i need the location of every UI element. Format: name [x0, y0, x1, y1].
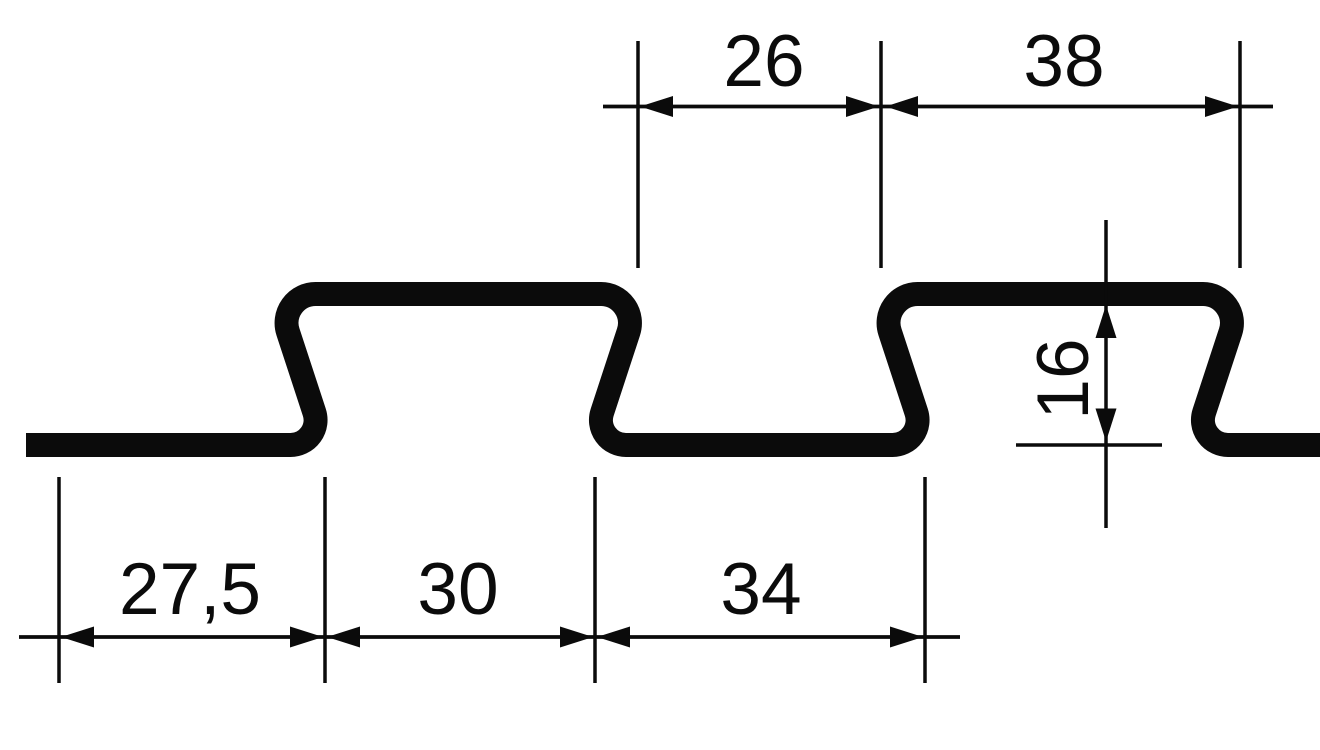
reference line bottom level for 16: [1016, 443, 1162, 447]
extension line bottom D x=925: [923, 477, 927, 683]
arrow left of 38: [886, 96, 919, 117]
arrow left of 27,5: [61, 627, 94, 648]
arrow left of 30: [327, 627, 360, 648]
extension line bottom A x=59: [57, 477, 61, 683]
svg-text:38: 38: [1023, 21, 1104, 102]
svg-text:27,5: 27,5: [119, 549, 261, 630]
arrow up of 16: [1096, 305, 1117, 338]
extension line bottom C x=595: [593, 477, 597, 683]
profile sheet cross-section outline: [26, 294, 1320, 445]
arrow right of 34: [890, 627, 923, 648]
arrow right of 30: [560, 627, 593, 648]
extension line bottom B x=325: [323, 477, 327, 683]
svg-text:30: 30: [417, 549, 498, 630]
arrow left of 26: [640, 96, 673, 117]
arrow down of 16: [1096, 409, 1117, 442]
dimension line top: [603, 105, 1273, 109]
arrow right of 38: [1205, 96, 1238, 117]
extension line top C x=1240: [1238, 41, 1242, 268]
dimension line vertical 16: [1104, 220, 1108, 528]
svg-text:16: 16: [1023, 338, 1104, 419]
svg-text:26: 26: [723, 21, 804, 102]
arrow right of 27,5: [290, 627, 323, 648]
svg-text:34: 34: [720, 549, 801, 630]
extension line top B x=881: [879, 41, 883, 268]
arrow right of 26: [846, 96, 879, 117]
arrow left of 34: [597, 627, 630, 648]
dimension line bottom: [19, 635, 960, 639]
extension line top A x=638: [636, 41, 640, 268]
